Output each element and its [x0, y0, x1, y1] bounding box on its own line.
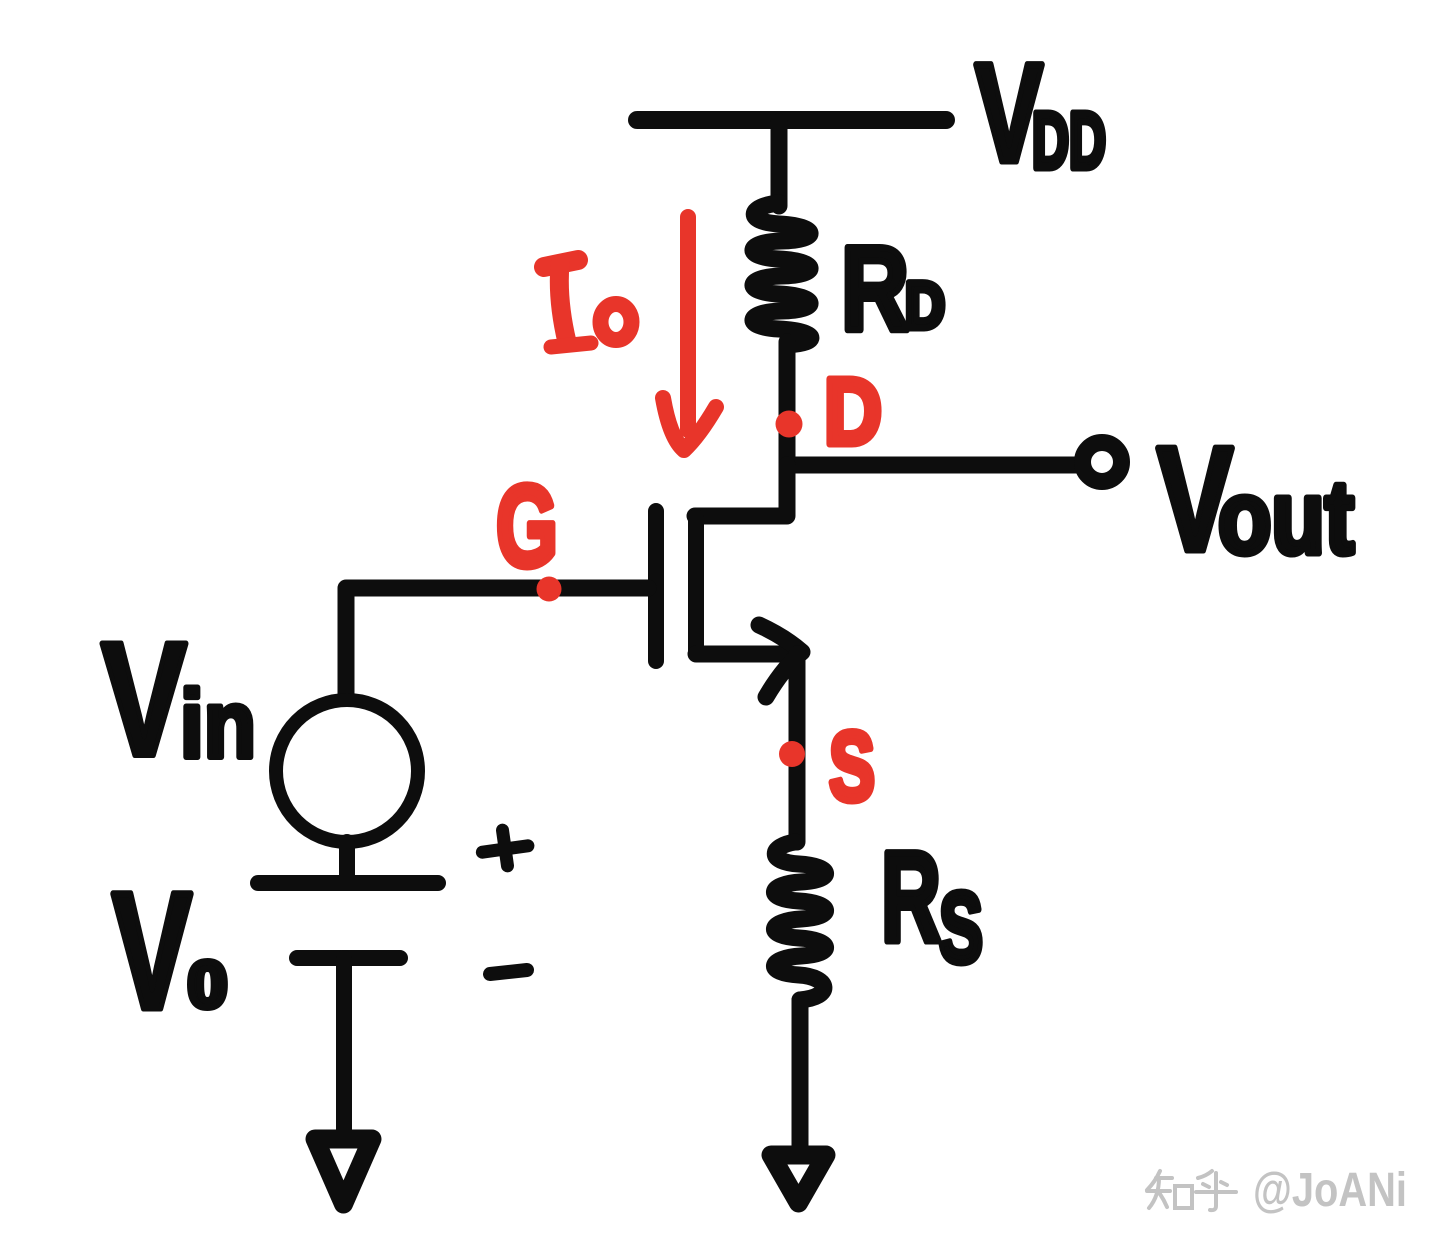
svg-text:0: 0	[188, 948, 227, 1021]
label V0	[112, 859, 227, 1044]
battery V0 plate -	[297, 950, 400, 966]
wire VDD rail to resistor RD	[771, 122, 788, 206]
label RD	[841, 222, 945, 356]
wire RS to ground	[792, 1000, 809, 1150]
voltage source Vin	[276, 700, 418, 842]
svg-text:DD: DD	[1032, 96, 1106, 185]
minus sign	[490, 970, 527, 974]
svg-text:V: V	[101, 609, 187, 790]
wire RD to node D	[779, 342, 796, 465]
wire node D to transistor drain	[695, 465, 787, 516]
wire Vin to gate	[346, 588, 648, 703]
watermark 知乎 @JoANi	[1147, 1171, 1236, 1210]
plus sign	[480, 827, 531, 869]
svg-text:@JoANi: @JoANi	[1253, 1164, 1407, 1217]
svg-text:S: S	[829, 711, 875, 821]
label Vout	[1157, 417, 1354, 582]
svg-text:D: D	[905, 268, 945, 342]
svg-text:G: G	[496, 461, 558, 591]
label G (red)	[496, 461, 558, 591]
resistor RS	[774, 842, 825, 1000]
label Vin	[101, 609, 256, 790]
node S (red dot)	[779, 741, 805, 767]
label RS	[881, 826, 983, 984]
svg-text:out: out	[1218, 460, 1354, 576]
transistor M1 (NMOS)	[656, 511, 802, 697]
wire source to RS	[789, 654, 806, 842]
output terminal Vout	[1083, 443, 1122, 482]
label Io (red)	[544, 260, 632, 347]
svg-text:R: R	[881, 826, 941, 969]
power rail VDD	[637, 111, 946, 129]
svg-text:D: D	[824, 359, 882, 465]
wire Vin to battery	[339, 842, 355, 878]
svg-text:V: V	[112, 859, 192, 1044]
wire node D to output terminal	[787, 457, 1083, 474]
svg-text:S: S	[939, 872, 983, 984]
label S (red)	[829, 711, 875, 821]
label D (red)	[824, 359, 882, 465]
label VDD	[975, 34, 1106, 191]
node D (red dot)	[776, 411, 803, 438]
current arrow Io (red)	[663, 217, 716, 450]
svg-text:R: R	[841, 222, 909, 356]
resistor RD	[753, 203, 811, 345]
svg-text:in: in	[180, 671, 256, 778]
ground (RS side)	[771, 1155, 826, 1203]
node G (red dot)	[537, 577, 562, 602]
wire battery to ground	[336, 958, 352, 1134]
ground (Vin side)	[315, 1139, 372, 1204]
battery V0 plate +	[258, 875, 438, 891]
